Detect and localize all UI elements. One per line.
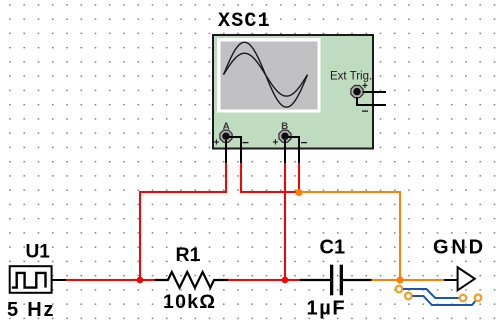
junction orange node scope <box>295 189 302 196</box>
wire B minus red <box>298 163 300 192</box>
oscilloscope screen <box>217 38 321 113</box>
junction node 2 <box>282 277 289 284</box>
label Ext Trig. <box>330 71 372 83</box>
capacitor C1 <box>300 265 373 296</box>
terminal A <box>220 130 232 142</box>
pin A plus black stub <box>225 140 227 164</box>
svg-text:5 Hz: 5 Hz <box>7 299 55 321</box>
label U1 <box>26 242 51 263</box>
wire orange feedback <box>299 192 400 280</box>
terminal B minus label <box>301 136 308 150</box>
svg-text:+: + <box>214 138 220 149</box>
svg-text:−: − <box>301 136 308 150</box>
svg-text:−: − <box>242 136 249 150</box>
pin B minus black stub <box>288 137 299 164</box>
svg-text:+: + <box>362 81 368 92</box>
waveform trace large <box>224 42 308 107</box>
label R1 <box>176 244 201 266</box>
wire B plus red <box>284 163 286 280</box>
wire red R1 to C1 <box>228 279 301 281</box>
label 1uF <box>307 298 347 320</box>
label 10kOhm <box>163 291 216 313</box>
terminal B plus label <box>273 138 279 149</box>
connector pad 3 <box>460 295 467 302</box>
label A channel <box>223 121 230 132</box>
pin U1 output <box>52 279 67 281</box>
junction node 3 orange <box>396 276 403 283</box>
ground GND symbol <box>444 267 475 290</box>
svg-text:XSC1: XSC1 <box>218 10 271 33</box>
wire red source to R1 <box>66 279 156 281</box>
svg-text:U1: U1 <box>26 242 51 263</box>
svg-text:C1: C1 <box>320 237 346 259</box>
connector pad 4 <box>475 295 482 302</box>
label GND <box>433 237 486 259</box>
label 5 Hz <box>7 299 55 321</box>
svg-text:−: − <box>362 104 369 118</box>
waveform trace small <box>224 53 308 96</box>
clock source U1 symbol <box>10 266 52 293</box>
Ext Trig minus label <box>362 104 369 118</box>
svg-text:1µF: 1µF <box>307 298 347 320</box>
wire orange C1 to GND <box>372 279 445 281</box>
pin B plus black stub <box>284 140 286 164</box>
junction node 1 <box>137 277 144 284</box>
label B channel <box>281 121 288 132</box>
wire A minus red <box>241 163 299 192</box>
Ext Trig plus label <box>362 81 368 92</box>
pin A minus black stub <box>229 137 241 164</box>
connector pad 1 <box>396 286 403 293</box>
oscilloscope U=XSC1 body <box>213 35 373 149</box>
svg-text:+: + <box>273 138 279 149</box>
Ext Trig terminal <box>351 86 363 98</box>
svg-text:R1: R1 <box>176 244 201 266</box>
label C1 <box>320 237 346 259</box>
wire Ext Trig plus stub <box>363 91 386 93</box>
connector pad 2 <box>405 293 412 300</box>
svg-text:GND: GND <box>433 237 486 259</box>
wire blue 1 <box>403 289 459 298</box>
wire A plus red <box>140 163 226 280</box>
label XSC1 <box>218 10 271 33</box>
terminal A plus label <box>214 138 220 149</box>
terminal A minus label <box>242 136 249 150</box>
resistor R1 <box>155 272 229 288</box>
wire blue 2 <box>412 296 475 305</box>
terminal B <box>279 130 291 142</box>
svg-text:10kΩ: 10kΩ <box>163 291 216 313</box>
wire Ext Trig minus stub <box>357 97 386 105</box>
